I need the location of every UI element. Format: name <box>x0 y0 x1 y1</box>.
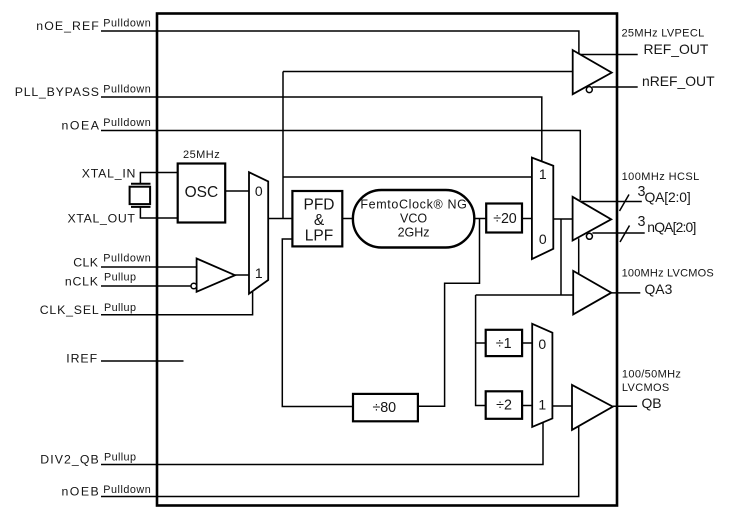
svg-text:QA3: QA3 <box>645 281 673 297</box>
svg-text:nREF_OUT: nREF_OUT <box>642 73 715 89</box>
wire CLK_SEL to input mux select <box>101 291 253 315</box>
wire buffer to input mux <box>235 274 249 276</box>
input buffer U1 <box>191 259 235 292</box>
wire divider2 to QB mux input 1 <box>522 405 532 407</box>
VCO FemtoClock NG <box>353 190 474 248</box>
pin CLK_SEL label <box>40 302 137 317</box>
pin CLK label <box>73 252 151 269</box>
QA bypass mux M2 <box>532 158 553 260</box>
svg-text:100/50MHz: 100/50MHz <box>622 369 681 381</box>
wire nOEA to QA driver enable <box>101 131 580 201</box>
svg-text:÷2: ÷2 <box>496 398 512 414</box>
svg-text:2GHz: 2GHz <box>398 226 430 240</box>
svg-text:LVCMOS: LVCMOS <box>622 382 670 394</box>
wire PFD to VCO <box>342 218 353 220</box>
node reference tap vertical <box>282 72 284 219</box>
pin nOEB label <box>62 484 152 498</box>
svg-text:DIV2_QB: DIV2_QB <box>40 453 100 467</box>
divider2 <box>486 391 522 419</box>
wire reference to REF_OUT driver <box>283 71 573 73</box>
wire QA3 output <box>611 292 640 294</box>
svg-text:25MHz: 25MHz <box>183 149 220 161</box>
wire nOE_REF to REF_OUT driver enable <box>101 31 579 54</box>
wire QB output <box>613 405 637 407</box>
svg-text:100MHz HCSL: 100MHz HCSL <box>622 171 700 183</box>
svg-text:0: 0 <box>255 183 263 199</box>
wire QB mux to QB driver <box>552 405 572 407</box>
wire divider20 to QA mux input 0 <box>522 218 532 220</box>
oscillator OSC <box>178 149 226 223</box>
svg-text:÷20: ÷20 <box>493 211 517 227</box>
pin PLL_BYPASS label <box>15 84 152 99</box>
wire tap to QA3 and dividers <box>476 219 574 406</box>
wire IREF stub <box>101 360 184 362</box>
svg-text:0: 0 <box>539 231 547 247</box>
svg-text:3: 3 <box>638 214 646 230</box>
wire XTAL_OUT to OSC <box>140 217 178 219</box>
wire PLL_BYPASS to QA mux select <box>101 97 542 162</box>
QB mux M3 <box>532 324 552 427</box>
pin nOEA label <box>62 117 152 132</box>
wire DIV2_QB to QB mux select <box>101 422 543 464</box>
svg-text:nCLK: nCLK <box>65 275 99 289</box>
wire divider1 to QB mux input 0 <box>522 342 532 344</box>
wire QA outputs <box>581 201 642 203</box>
svg-text:nOEB: nOEB <box>62 484 100 498</box>
svg-text:1: 1 <box>539 166 547 182</box>
svg-text:Pullup: Pullup <box>104 271 137 283</box>
pin nCLK label <box>65 271 137 288</box>
label 100/50MHz LVCMOS <box>622 369 681 395</box>
svg-text:1: 1 <box>538 397 546 413</box>
divider20 <box>486 204 522 233</box>
wire input mux to PFD <box>268 218 292 220</box>
svg-text:QB: QB <box>642 395 662 411</box>
QA3 driver <box>573 271 611 315</box>
PFD and LPF block <box>292 191 342 246</box>
svg-text:Pulldown: Pulldown <box>103 18 151 30</box>
svg-text:PFD: PFD <box>304 197 335 214</box>
outer chip boundary box <box>157 14 617 506</box>
svg-text:VCO: VCO <box>400 212 427 226</box>
svg-text:100MHz LVCMOS: 100MHz LVCMOS <box>622 268 714 280</box>
svg-text:OSC: OSC <box>185 184 219 201</box>
divider80 <box>353 394 418 421</box>
svg-text:&: & <box>314 212 325 229</box>
divider1 <box>486 330 522 356</box>
svg-text:nOE_REF: nOE_REF <box>36 19 100 33</box>
pin nOE_REF label <box>36 18 151 33</box>
pin DIV2_QB label <box>40 451 136 466</box>
wire VCO to divider20 <box>474 218 486 220</box>
svg-text:nOEA: nOEA <box>62 119 101 133</box>
svg-text:Pulldown: Pulldown <box>103 84 151 96</box>
svg-text:1: 1 <box>255 265 263 281</box>
wire CLK to input buffer <box>101 266 197 268</box>
svg-text:QA[2:0]: QA[2:0] <box>645 189 691 205</box>
QB driver <box>572 385 613 430</box>
svg-text:FemtoClock® NG: FemtoClock® NG <box>360 198 467 212</box>
svg-text:Pulldown: Pulldown <box>103 117 151 129</box>
wire reference to QA mux input 1 <box>283 176 532 178</box>
REF_OUT driver <box>573 50 612 94</box>
svg-text:XTAL_OUT: XTAL_OUT <box>68 212 137 226</box>
svg-text:LPF: LPF <box>305 228 333 245</box>
input mux M1 <box>249 172 268 294</box>
wire XTAL_IN to OSC <box>140 172 178 174</box>
svg-text:Pulldown: Pulldown <box>103 484 151 496</box>
svg-text:÷80: ÷80 <box>373 400 397 416</box>
svg-text:÷1: ÷1 <box>496 336 512 352</box>
svg-text:CLK: CLK <box>73 256 99 270</box>
bus width slash QA <box>620 195 630 212</box>
wire OSC to input mux <box>225 190 249 192</box>
svg-text:Pullup: Pullup <box>104 302 137 314</box>
wire nOEB to QB driver enable <box>101 426 579 496</box>
svg-text:Pulldown: Pulldown <box>103 252 151 264</box>
crystal Y1 <box>130 173 151 219</box>
svg-text:nQA[2:0]: nQA[2:0] <box>647 219 696 235</box>
svg-text:25MHz LVPECL: 25MHz LVPECL <box>622 28 705 40</box>
wire nREF_OUT <box>592 86 638 88</box>
bus width slash nQA <box>620 226 630 243</box>
svg-text:IREF: IREF <box>66 351 98 365</box>
svg-text:0: 0 <box>538 336 546 352</box>
wire nCLK to input buffer bubble <box>101 285 191 287</box>
svg-text:CLK_SEL: CLK_SEL <box>40 303 100 317</box>
svg-text:Pullup: Pullup <box>104 451 137 463</box>
QA driver <box>573 197 612 241</box>
svg-text:XTAL_IN: XTAL_IN <box>82 167 137 181</box>
svg-text:REF_OUT: REF_OUT <box>644 41 709 57</box>
svg-text:PLL_BYPASS: PLL_BYPASS <box>15 85 100 99</box>
wire REF_OUT <box>580 54 637 56</box>
wire divider80 to PFD feedback input <box>282 239 353 407</box>
wire QA mux to QA driver <box>553 218 572 220</box>
wire feedback tap to divider80 <box>418 219 480 407</box>
enable chain QA to QA3 <box>578 238 580 273</box>
